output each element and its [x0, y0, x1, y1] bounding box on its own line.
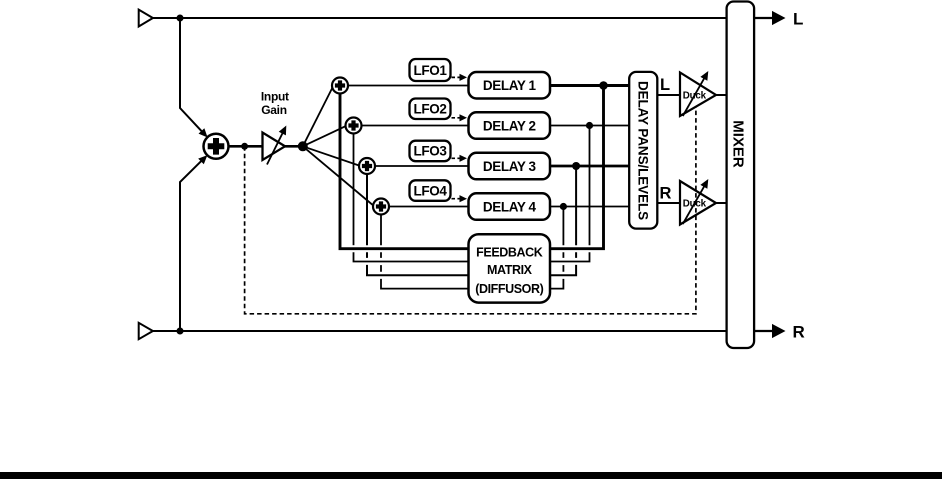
- wire: fan to adder 2: [303, 126, 347, 147]
- dashed ducking control line: [245, 107, 696, 314]
- wire: mixer R output: [754, 330, 773, 332]
- LFO3 dashed arrow: [452, 157, 460, 159]
- LFO1 dashed arrow: [452, 76, 460, 78]
- adder 3: [359, 158, 375, 174]
- svg-text:(DIFFUSOR): (DIFFUSOR): [475, 282, 543, 296]
- delay pans/levels box: [629, 72, 657, 229]
- wire: mixer L output: [754, 17, 773, 19]
- wire: delay3 output to pans: [550, 165, 629, 168]
- wire: delay4 output to pans: [550, 206, 629, 208]
- delay 1 box: [469, 72, 551, 99]
- LFO2 dashed arrow: [452, 117, 460, 119]
- adder 1: [332, 78, 348, 94]
- svg-text:R: R: [793, 322, 805, 341]
- LFO4 dashed arrow: [452, 198, 460, 200]
- wire: L branch vertical to summer: [180, 18, 204, 133]
- wire: adder2 to delay2: [362, 125, 469, 127]
- wire: R branch vertical to summer: [180, 159, 204, 331]
- wire: feedback tap 3 (right vertical, right feedback line 3): [550, 166, 576, 275]
- wire: adder3 to delay3: [375, 165, 469, 167]
- wire: fan to adder 3: [303, 146, 361, 166]
- adder 2: [346, 118, 362, 134]
- node: top L input junction: [177, 15, 184, 22]
- node: delay3 feedback tap dot: [572, 162, 580, 170]
- wire: adder1 to delay1: [348, 85, 469, 87]
- svg-text:DELAY PANS/LEVELS: DELAY PANS/LEVELS: [636, 81, 651, 220]
- wire: feedback tap 2 (right vertical, right feedback line 2): [550, 126, 590, 262]
- svg-text:LFO2: LFO2: [414, 102, 447, 117]
- feedback matrix box: [469, 234, 551, 302]
- wire: duck2 to mixer: [716, 202, 727, 204]
- wire: feedback tap 4 (right vertical, right feedback line 4): [550, 207, 563, 289]
- wire: fan to adder 4: [303, 146, 375, 206]
- node: delay1 feedback tap dot: [599, 81, 608, 90]
- LFO1 box: [410, 59, 451, 81]
- svg-text:L: L: [660, 76, 670, 94]
- wire: feedback tap 1 (right vertical, right feedback line 1): [550, 86, 604, 249]
- wire: bottom R input line: [153, 330, 727, 332]
- adder 4: [373, 199, 389, 215]
- node: ducking control tap: [241, 143, 248, 150]
- wire: adder4 to delay4: [389, 206, 469, 208]
- arrowhead into summer from L branch: [199, 128, 211, 140]
- svg-text:LFO3: LFO3: [414, 144, 448, 159]
- mixer box: [727, 2, 755, 349]
- wire: input gain to fan node: [285, 145, 303, 148]
- svg-text:DELAY 1: DELAY 1: [483, 78, 537, 93]
- svg-text:DELAY 2: DELAY 2: [483, 118, 536, 133]
- svg-text:DELAY 3: DELAY 3: [483, 159, 537, 174]
- bottom black bar: [0, 472, 942, 479]
- wire: pans R to duck2: [657, 202, 680, 204]
- summer circle with plus: [204, 134, 229, 159]
- svg-text:MIXER: MIXER: [730, 120, 747, 168]
- svg-text:Duck: Duck: [683, 90, 707, 101]
- LFO3 box: [410, 141, 451, 162]
- duck 1 variable arrow: [683, 78, 705, 116]
- input R triangle: [139, 323, 153, 339]
- delay 2 box: [469, 112, 551, 139]
- delay 4 box: [469, 193, 551, 220]
- node: delay2 feedback tap dot: [586, 122, 593, 129]
- svg-text:MATRIX: MATRIX: [487, 263, 533, 277]
- svg-text:Duck: Duck: [683, 198, 707, 209]
- duck 1 amp triangle: [680, 73, 716, 117]
- svg-text:R: R: [660, 185, 672, 203]
- wire: fan to adder 1: [303, 86, 334, 147]
- input L triangle: [139, 10, 153, 27]
- LFO2 box: [410, 99, 451, 120]
- LFO4 box: [410, 180, 451, 201]
- duck 2 amp triangle: [680, 181, 716, 225]
- svg-text:L: L: [793, 9, 803, 28]
- wire: duck1 to mixer: [716, 94, 727, 96]
- arrowhead into summer from R branch: [198, 152, 210, 164]
- wire: feedback return 3 (adder3 down, left feedback line 3): [367, 174, 469, 275]
- wire: feedback return 4 (adder4 down, left feedback line 4): [381, 215, 469, 289]
- input gain variable arrow: [267, 132, 283, 165]
- wire: feedback return 1 (adder1 down, left feedback line 1): [340, 94, 469, 249]
- svg-text:FEEDBACK: FEEDBACK: [476, 245, 543, 259]
- node: delay4 feedback tap dot: [560, 203, 567, 210]
- wire: delay1 output to pans: [550, 84, 629, 87]
- wire: summer to input gain: [229, 145, 264, 148]
- wire: top L input line: [153, 17, 727, 19]
- input gain amp triangle: [263, 133, 286, 161]
- wire: delay2 output to pans: [550, 125, 629, 127]
- delay 3 box: [469, 153, 551, 180]
- svg-text:DELAY 4: DELAY 4: [483, 199, 537, 214]
- wire: feedback return 2 (adder2 down, left feedback line 2): [353, 134, 355, 246]
- svg-text:Input: Input: [261, 90, 289, 104]
- node: bottom R input junction: [177, 328, 184, 335]
- wire: pans L to duck1: [657, 94, 680, 96]
- duck 2 variable arrow: [683, 186, 705, 224]
- svg-text:Gain: Gain: [261, 103, 286, 117]
- svg-text:LFO4: LFO4: [414, 183, 448, 198]
- svg-text:LFO1: LFO1: [414, 63, 448, 78]
- node: fan-out junction: [298, 141, 308, 151]
